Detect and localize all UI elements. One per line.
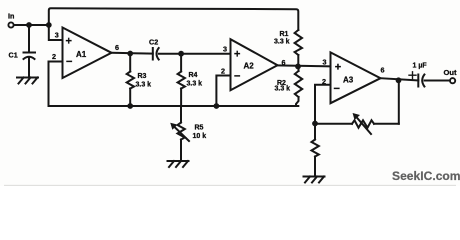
wire A3 pin2 [315, 85, 331, 123]
svg-text:In: In [8, 12, 14, 21]
wire pot to pin2 node [315, 123, 352, 125]
svg-text:SeekIC.com: SeekIC.com [392, 169, 460, 183]
wire A2 pin2 [216, 76, 230, 107]
scan artifact bottom edge [4, 184, 456, 186]
node R3 top junction [127, 51, 133, 57]
node A3 pin2 bottom junction [312, 121, 318, 127]
op-amp A3 [331, 52, 381, 103]
svg-text:R3: R3 [138, 73, 147, 80]
potentiometer (A3 feedback) [352, 113, 374, 134]
wire A3 feedback down [398, 80, 400, 124]
resistor R1 [295, 30, 302, 55]
svg-text:+: + [234, 48, 240, 60]
svg-text:10 k: 10 k [193, 133, 207, 140]
svg-text:−: − [334, 83, 340, 95]
svg-text:2: 2 [221, 66, 225, 75]
svg-text:2: 2 [322, 77, 326, 86]
node R1 R2 junction [295, 64, 301, 70]
wire R1 to node [297, 55, 299, 66]
svg-text:R1: R1 [280, 31, 289, 38]
svg-text:R4: R4 [189, 72, 198, 79]
wire A3 output [381, 78, 419, 80]
op-amp A1 [63, 28, 112, 79]
node Out terminal [450, 78, 455, 83]
svg-text:R5: R5 [195, 125, 204, 132]
node A3 output junction [396, 77, 402, 83]
svg-text:6: 6 [115, 43, 119, 52]
resistor (A3 ground leg) [312, 124, 319, 177]
svg-text:−: − [66, 56, 72, 68]
svg-text:3: 3 [223, 45, 227, 54]
resistor R2 [295, 66, 302, 106]
svg-text:A1: A1 [76, 50, 87, 59]
node In terminal [8, 22, 13, 27]
svg-text:A3: A3 [343, 76, 354, 85]
wire feedback riser and top feedback line [49, 8, 298, 30]
svg-text:C2: C2 [149, 38, 158, 47]
node C1 junction [26, 22, 32, 28]
wire cap to Out [425, 80, 450, 82]
wire A1 output [112, 52, 153, 55]
resistor R4 [178, 54, 185, 106]
svg-text:6: 6 [282, 58, 286, 67]
svg-text:3.3 k: 3.3 k [187, 81, 203, 88]
svg-text:3: 3 [55, 30, 59, 39]
svg-text:+: + [66, 36, 72, 48]
wire A1 pin2 [49, 62, 63, 107]
node R3 bottom junction [127, 103, 133, 109]
ground (C1) [17, 78, 38, 84]
wire A2 output to A3 pin3 [277, 65, 331, 66]
svg-text:−: − [234, 70, 240, 82]
wire A1 pin3 [49, 25, 63, 40]
svg-text:3.3 k: 3.3 k [274, 38, 290, 45]
wire C1 top lead [28, 25, 30, 52]
wire bottom bus [49, 105, 299, 107]
svg-text:2: 2 [52, 52, 56, 61]
svg-text:+: + [335, 61, 341, 73]
ground (R5) [168, 161, 189, 167]
node R4 top junction [178, 51, 184, 57]
capacitor 1uF output [409, 72, 424, 87]
wire C2 to A2 pin3 [159, 53, 231, 55]
node A2 pin2 junction [214, 103, 220, 109]
resistor R5 (variable) [171, 106, 189, 161]
svg-text:1 µF: 1 µF [413, 63, 428, 70]
svg-text:A2: A2 [244, 62, 255, 71]
wire A3 feedback bottom right [374, 123, 399, 125]
svg-text:C1: C1 [9, 51, 18, 60]
op-amp A2 [231, 39, 278, 90]
svg-text:Out: Out [444, 68, 458, 77]
ground (A3 leg) [304, 177, 325, 183]
svg-text:3.3 k: 3.3 k [136, 82, 152, 89]
svg-text:3: 3 [323, 57, 327, 66]
capacitor C1 [24, 53, 36, 77]
wire input to feedback junction [14, 24, 49, 26]
node feedback junction [46, 22, 52, 28]
svg-text:3.3 k: 3.3 k [275, 86, 291, 93]
resistor R3 [127, 54, 134, 107]
capacitor C2 [153, 48, 159, 60]
svg-text:6: 6 [381, 65, 385, 74]
